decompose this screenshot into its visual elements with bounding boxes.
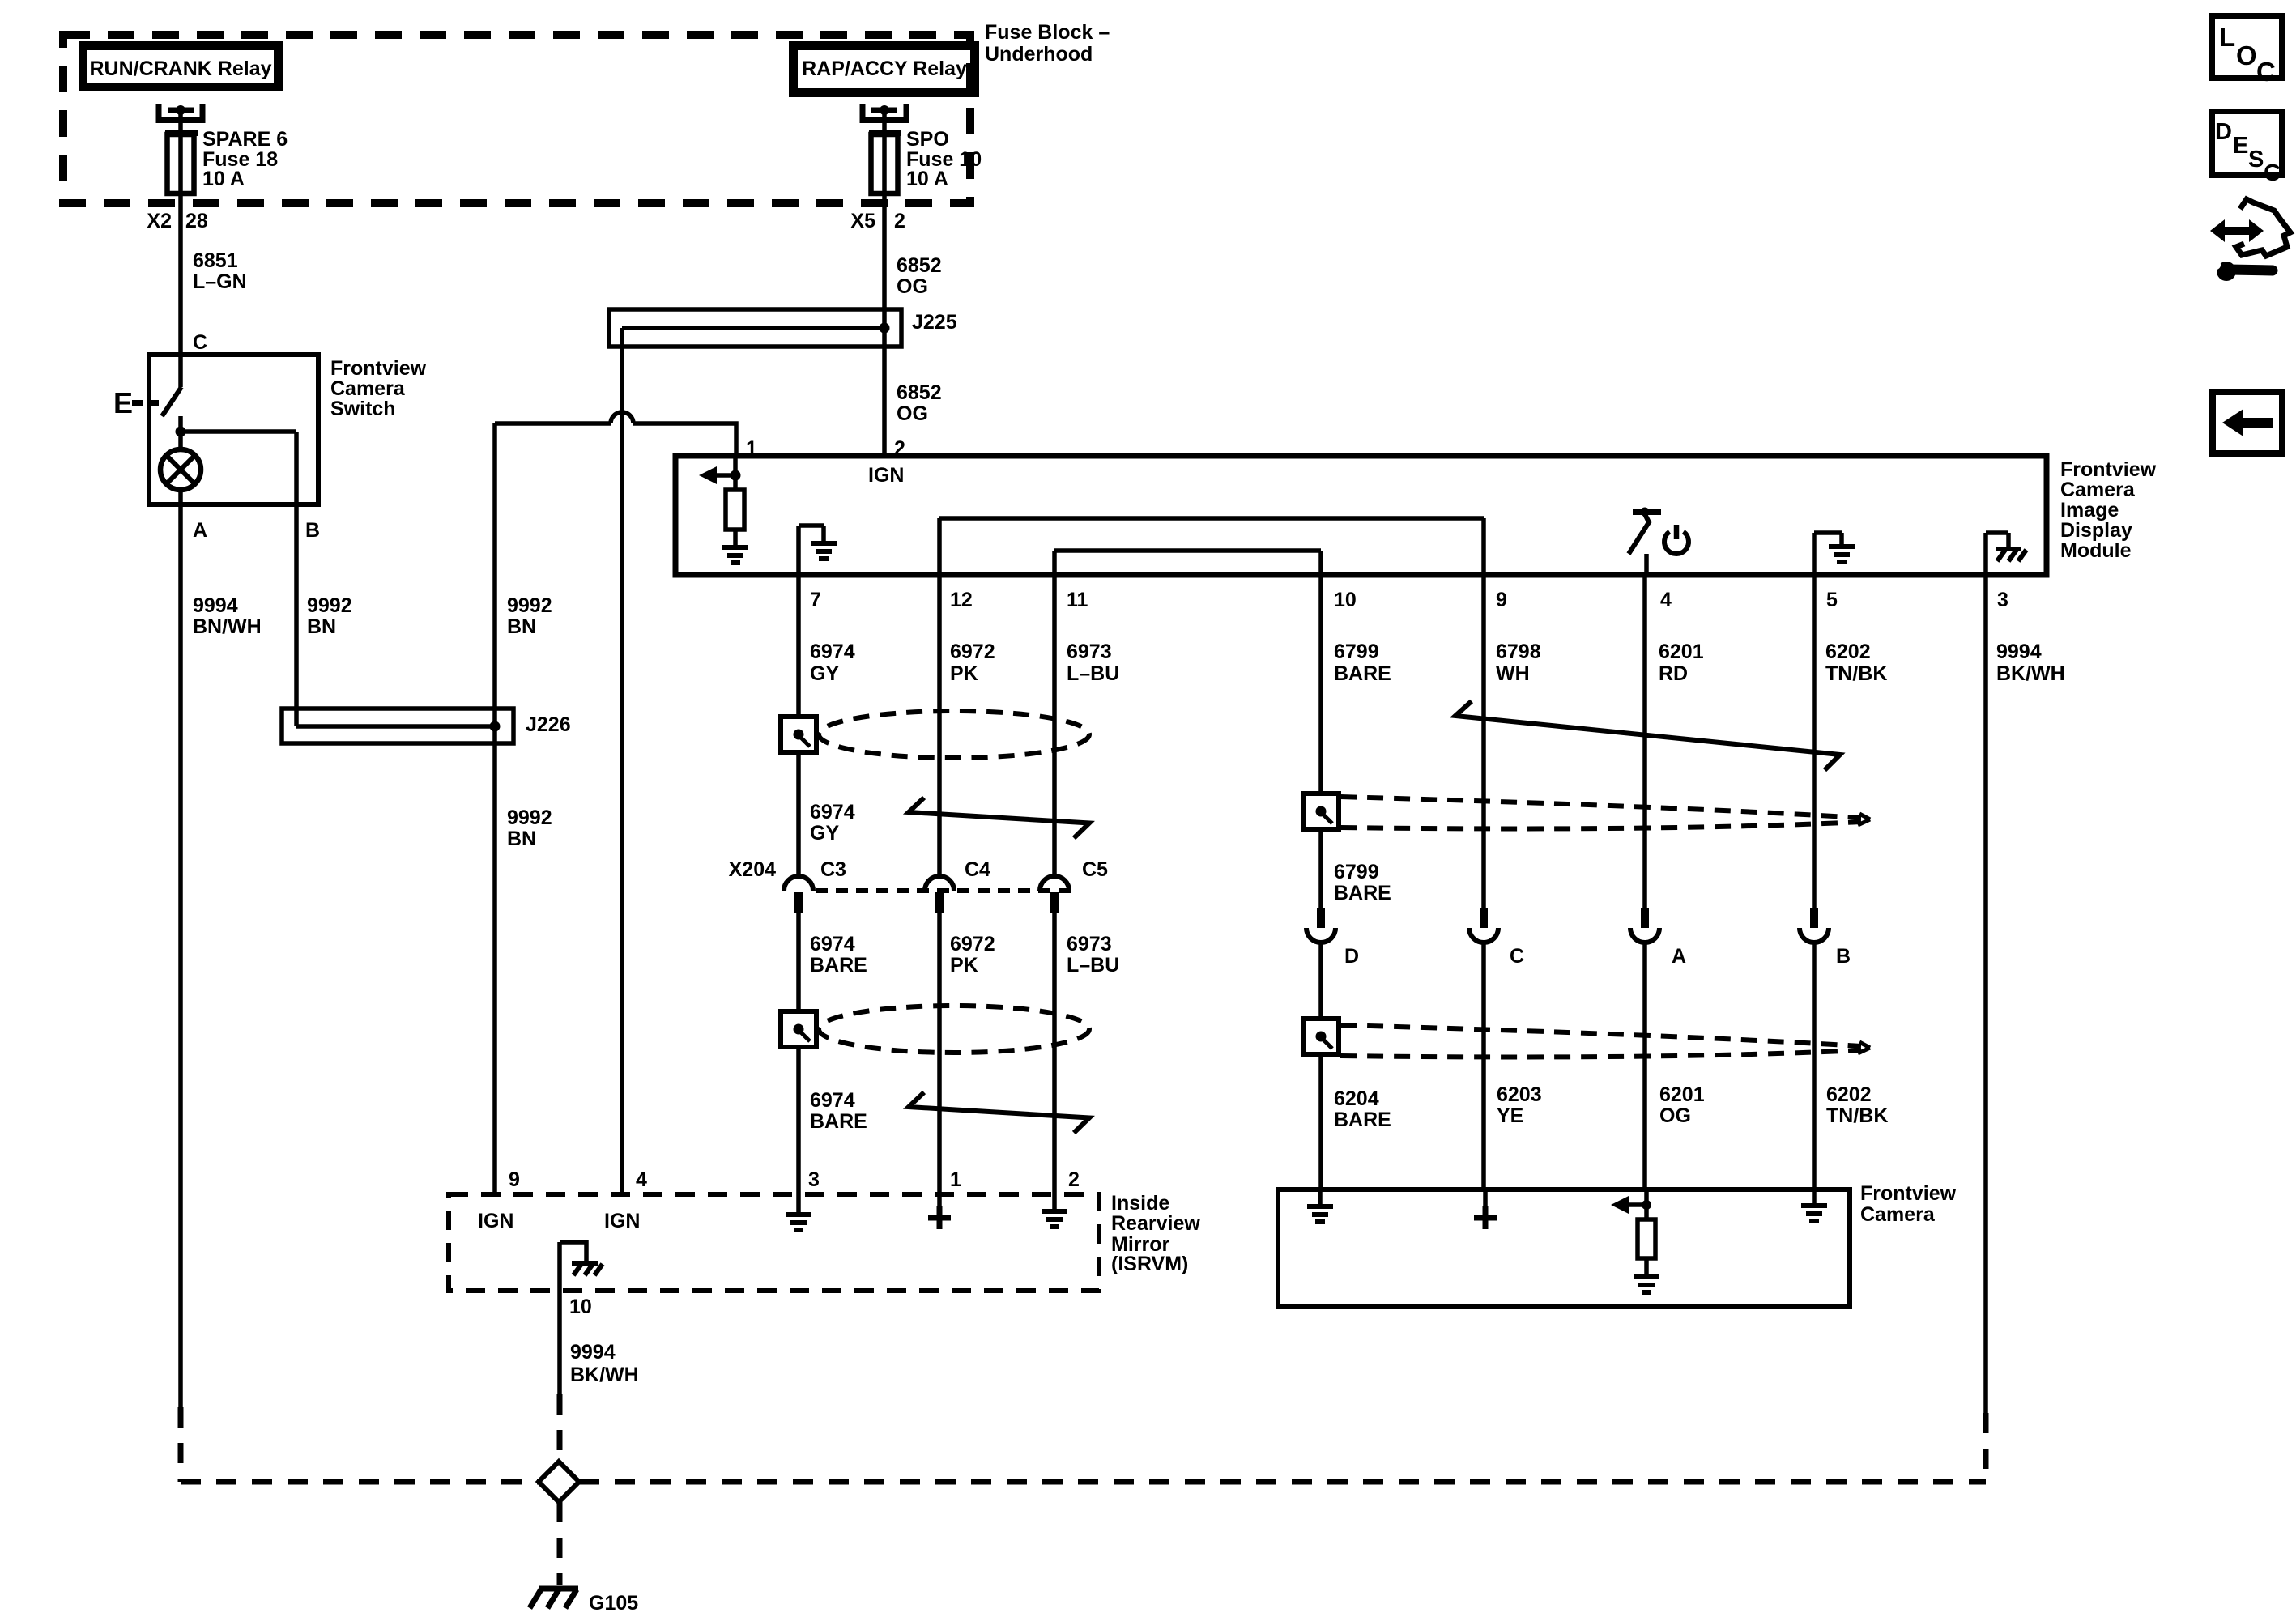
- svg-text:J225: J225: [912, 311, 957, 334]
- svg-text:10 A: 10 A: [906, 168, 948, 190]
- svg-text:BARE: BARE: [1334, 662, 1391, 685]
- svg-text:C: C: [2256, 57, 2276, 87]
- svg-text:7: 7: [810, 589, 821, 611]
- svg-text:Module: Module: [2060, 539, 2132, 562]
- svg-text:6974: 6974: [810, 801, 855, 823]
- svg-text:BN/WH: BN/WH: [193, 615, 262, 638]
- svg-text:BK/WH: BK/WH: [570, 1364, 639, 1386]
- svg-text:11: 11: [1067, 589, 1088, 611]
- svg-text:GY: GY: [810, 822, 839, 845]
- svg-text:PK: PK: [950, 954, 978, 977]
- svg-text:X5: X5: [850, 210, 875, 232]
- svg-text:5: 5: [1826, 589, 1838, 611]
- svg-text:RUN/CRANK Relay: RUN/CRANK Relay: [89, 57, 271, 80]
- svg-text:G105: G105: [589, 1592, 638, 1615]
- svg-text:Frontview: Frontview: [330, 357, 427, 380]
- svg-text:4: 4: [636, 1168, 647, 1191]
- svg-text:Camera: Camera: [1860, 1203, 1936, 1226]
- svg-text:2: 2: [894, 437, 905, 460]
- svg-text:YE: YE: [1497, 1104, 1523, 1127]
- svg-text:6852: 6852: [897, 381, 942, 404]
- svg-text:Inside: Inside: [1111, 1192, 1169, 1215]
- svg-text:X204: X204: [729, 858, 776, 881]
- svg-text:6201: 6201: [1659, 640, 1704, 663]
- svg-text:BN: BN: [507, 828, 536, 850]
- svg-text:3: 3: [808, 1168, 820, 1191]
- svg-text:9992: 9992: [307, 594, 352, 617]
- svg-text:L–BU: L–BU: [1067, 954, 1119, 977]
- svg-text:28: 28: [185, 210, 208, 232]
- svg-text:OG: OG: [1659, 1104, 1691, 1127]
- svg-text:1: 1: [950, 1168, 961, 1191]
- svg-text:6203: 6203: [1497, 1083, 1542, 1106]
- svg-text:IGN: IGN: [604, 1210, 640, 1232]
- svg-text:6798: 6798: [1496, 640, 1541, 663]
- svg-text:12: 12: [950, 589, 973, 611]
- svg-text:BN: BN: [307, 615, 336, 638]
- svg-text:Camera: Camera: [330, 377, 406, 400]
- svg-text:BN: BN: [507, 615, 536, 638]
- svg-text:B: B: [1836, 945, 1851, 968]
- svg-text:OG: OG: [897, 402, 928, 425]
- svg-text:J226: J226: [526, 713, 571, 736]
- svg-text:9992: 9992: [507, 806, 552, 829]
- svg-text:L–GN: L–GN: [193, 270, 247, 293]
- svg-text:4: 4: [1660, 589, 1672, 611]
- svg-text:RD: RD: [1659, 662, 1688, 685]
- svg-text:6799: 6799: [1334, 640, 1379, 663]
- svg-text:BARE: BARE: [1334, 882, 1391, 904]
- svg-text:3: 3: [1997, 589, 2008, 611]
- svg-text:L–BU: L–BU: [1067, 662, 1119, 685]
- svg-text:TN/BK: TN/BK: [1825, 662, 1887, 685]
- svg-text:PK: PK: [950, 662, 978, 685]
- svg-text:BARE: BARE: [810, 954, 867, 977]
- svg-text:S: S: [2248, 147, 2264, 172]
- svg-text:BK/WH: BK/WH: [1996, 662, 2065, 685]
- svg-text:1: 1: [746, 437, 757, 460]
- svg-text:6852: 6852: [897, 254, 942, 277]
- svg-text:6799: 6799: [1334, 861, 1379, 883]
- svg-text:Frontview: Frontview: [1860, 1182, 1957, 1205]
- svg-text:Camera: Camera: [2060, 479, 2136, 501]
- svg-text:C3: C3: [820, 858, 846, 881]
- svg-text:WH: WH: [1496, 662, 1530, 685]
- svg-text:E: E: [113, 386, 133, 419]
- svg-text:L: L: [2219, 22, 2235, 52]
- svg-text:Frontview: Frontview: [2060, 458, 2157, 481]
- svg-text:Image: Image: [2060, 499, 2119, 521]
- svg-text:C: C: [1510, 945, 1524, 968]
- svg-text:C5: C5: [1082, 858, 1108, 881]
- svg-text:6201: 6201: [1659, 1083, 1705, 1106]
- svg-text:9994: 9994: [1996, 640, 2042, 663]
- svg-text:BARE: BARE: [1334, 1108, 1391, 1131]
- svg-text:IGN: IGN: [478, 1210, 513, 1232]
- svg-text:SPARE 6: SPARE 6: [202, 128, 288, 151]
- svg-text:9: 9: [1496, 589, 1507, 611]
- svg-text:SPO: SPO: [906, 128, 949, 151]
- svg-text:10 A: 10 A: [202, 168, 245, 190]
- svg-text:B: B: [305, 519, 320, 542]
- svg-text:2: 2: [894, 210, 905, 232]
- svg-text:6974: 6974: [810, 933, 855, 955]
- svg-text:TN/BK: TN/BK: [1826, 1104, 1888, 1127]
- svg-text:6973: 6973: [1067, 640, 1112, 663]
- svg-text:6972: 6972: [950, 640, 995, 663]
- svg-text:Switch: Switch: [330, 398, 396, 420]
- svg-text:6974: 6974: [810, 1089, 855, 1112]
- svg-text:9992: 9992: [507, 594, 552, 617]
- svg-text:10: 10: [569, 1296, 592, 1318]
- svg-text:Rearview: Rearview: [1111, 1212, 1200, 1235]
- svg-text:D: D: [1344, 945, 1359, 968]
- svg-text:A: A: [193, 519, 207, 542]
- svg-text:C: C: [193, 331, 207, 354]
- svg-text:BARE: BARE: [810, 1110, 867, 1133]
- svg-text:C: C: [2264, 160, 2281, 186]
- svg-text:Underhood: Underhood: [985, 43, 1093, 66]
- svg-text:OG: OG: [897, 275, 928, 298]
- svg-text:2: 2: [1068, 1168, 1080, 1191]
- svg-text:GY: GY: [810, 662, 839, 685]
- svg-text:6972: 6972: [950, 933, 995, 955]
- svg-text:10: 10: [1334, 589, 1357, 611]
- svg-text:9994: 9994: [570, 1341, 616, 1364]
- svg-text:D: D: [2215, 119, 2232, 145]
- svg-text:9994: 9994: [193, 594, 238, 617]
- svg-text:E: E: [2233, 133, 2248, 159]
- svg-text:RAP/ACCY Relay: RAP/ACCY Relay: [802, 57, 967, 80]
- svg-text:IGN: IGN: [868, 464, 904, 487]
- svg-text:6202: 6202: [1826, 1083, 1872, 1106]
- svg-text:A: A: [1672, 945, 1686, 968]
- svg-text:(ISRVM): (ISRVM): [1111, 1253, 1188, 1275]
- svg-text:6202: 6202: [1825, 640, 1871, 663]
- svg-text:X2: X2: [147, 210, 172, 232]
- svg-text:9: 9: [509, 1168, 520, 1191]
- svg-text:6974: 6974: [810, 640, 855, 663]
- svg-text:O: O: [2236, 40, 2257, 70]
- svg-text:6204: 6204: [1334, 1087, 1379, 1110]
- svg-text:6851: 6851: [193, 249, 238, 272]
- svg-text:C4: C4: [965, 858, 990, 881]
- svg-text:Display: Display: [2060, 519, 2132, 542]
- svg-text:Fuse Block –: Fuse Block –: [985, 21, 1110, 44]
- svg-text:6973: 6973: [1067, 933, 1112, 955]
